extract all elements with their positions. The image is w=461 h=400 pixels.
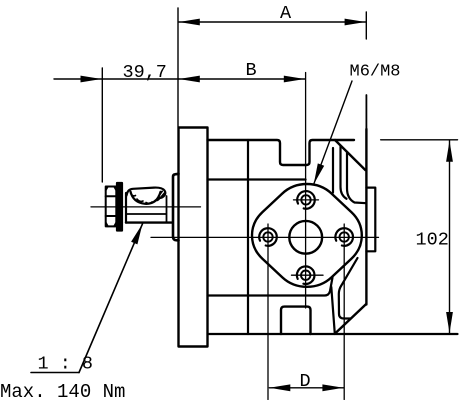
bolt hole bottom <box>292 266 324 284</box>
right bolt hole vertical line merged with D extension <box>343 224 345 400</box>
mounting flange squircle outline (end view) <box>252 184 362 287</box>
shaft step vertical <box>166 196 168 223</box>
shaft taper line <box>126 213 166 215</box>
body right edge <box>365 129 367 305</box>
body top-right chamfer <box>335 140 365 170</box>
nut facet lines <box>106 195 117 197</box>
dimension 102 extension line top <box>381 139 458 141</box>
dimension B arrow left <box>179 76 200 83</box>
taper 1:8 leader line <box>79 224 143 373</box>
dimension 39,7 extension line <box>101 68 103 182</box>
port boss upper contour outer <box>347 153 366 204</box>
svg-text:102: 102 <box>416 230 449 251</box>
port boss upper contour <box>332 148 334 193</box>
center bore circle <box>289 221 322 254</box>
shaft thread dome outline <box>127 188 166 198</box>
boss lower left line <box>331 287 335 334</box>
vertical centerline of end view merged with B extension <box>305 73 307 309</box>
dimension A arrow left <box>179 19 200 26</box>
internal top edge line <box>208 178 306 180</box>
dimension B arrow right <box>284 76 305 83</box>
svg-text:D: D <box>300 371 311 392</box>
pump body top edge with top notch <box>208 140 355 165</box>
shaft thread dome inner bowl <box>131 192 161 204</box>
washer <box>117 183 122 231</box>
body bottom edge merged with 102 bottom extension line <box>208 333 458 335</box>
svg-text:B: B <box>246 60 257 81</box>
taper 1:8 leader arrowhead <box>131 224 142 245</box>
internal vertical joint line <box>247 140 249 334</box>
shaft thread scallops <box>131 193 161 203</box>
shaft left end face <box>125 193 127 223</box>
dimension D arrow left <box>269 384 290 391</box>
dimension D line <box>269 387 343 389</box>
left bolt hole vertical line merged with D extension <box>267 224 269 400</box>
bolt hole right <box>335 228 353 246</box>
svg-text:39,7: 39,7 <box>123 62 167 83</box>
bolt hole top M6/M8 : threaded outer arc with gap, inner circle, tick <box>294 191 319 209</box>
dimension 102 line <box>449 141 451 333</box>
taper 1:8 label underline <box>31 372 79 374</box>
dimension 102 arrow bottom <box>446 312 453 333</box>
port boss upper contour inner <box>341 146 347 199</box>
front mounting flange plate (side view) <box>179 128 208 347</box>
dimension 102 arrow top <box>446 141 453 162</box>
svg-text:1 : 8: 1 : 8 <box>38 354 94 375</box>
svg-text:M6/M8: M6/M8 <box>350 63 401 82</box>
M6/M8 leader arrowhead <box>314 163 325 184</box>
internal bottom edge line with right hook <box>208 278 333 296</box>
dimension A line <box>179 21 366 23</box>
body bottom-right chamfer <box>335 304 366 334</box>
dimension A extension line right <box>365 12 367 39</box>
dimension A extension line left <box>177 8 179 127</box>
dimension B line <box>179 78 305 80</box>
port boss lower contour <box>339 258 358 319</box>
horizontal centerline of end view <box>151 236 379 238</box>
svg-text:A: A <box>280 3 292 24</box>
bolt hole left <box>259 228 277 246</box>
hub bracket on flange front <box>173 174 179 241</box>
shaft centerline <box>91 206 201 208</box>
dimension 39,7 tail line and outside arrow <box>54 78 179 80</box>
svg-text:Max. 140 Nm: Max. 140 Nm <box>0 381 125 400</box>
M6/M8 leader line <box>314 81 352 184</box>
shaft nut <box>106 187 117 227</box>
nut corner chamfers <box>106 187 117 227</box>
shaft thread end marks <box>159 191 165 197</box>
shaft bottom edge <box>126 221 172 223</box>
dimension A arrow right <box>345 19 366 26</box>
bottom notch <box>281 307 311 334</box>
port boss right side rectangle <box>366 188 375 252</box>
dimension D arrow right <box>322 384 343 391</box>
